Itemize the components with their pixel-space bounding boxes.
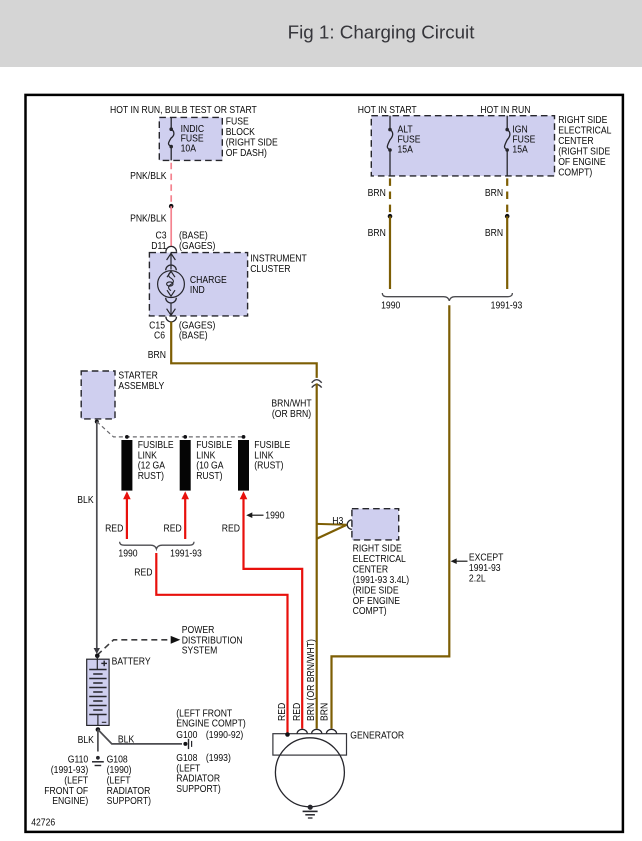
label PNK/BLK (upper)	[130, 171, 167, 182]
wire RED merged to generator	[156, 553, 287, 734]
label BLK (ground wire)	[78, 734, 95, 745]
svg-text:ELECTRICAL: ELECTRICAL	[353, 554, 406, 565]
svg-text:Fig 1: Charging Circuit: Fig 1: Charging Circuit	[288, 21, 476, 42]
svg-text:SYSTEM: SYSTEM	[182, 645, 217, 656]
svg-text:BLK: BLK	[78, 734, 95, 745]
instrument cluster box	[149, 253, 247, 316]
wire PNK/BLK dashed segment	[170, 163, 172, 204]
node RED at generator	[285, 732, 290, 737]
label RED rotated (1990 wire)	[292, 702, 303, 721]
svg-text:FRONT OF: FRONT OF	[44, 785, 88, 796]
svg-text:BRN: BRN	[148, 350, 166, 361]
fuse IGN FUSE 15A	[505, 116, 510, 176]
svg-text:(GAGES): (GAGES)	[179, 320, 215, 331]
svg-text:(LEFT: (LEFT	[107, 775, 131, 786]
connector cup generator RED(1990)	[297, 729, 307, 733]
label BLK (starter wire)	[77, 494, 94, 505]
svg-text:LINK: LINK	[254, 450, 274, 461]
label RED rotated (merged wire)	[277, 702, 288, 721]
charge indicator lamp symbol	[158, 253, 185, 315]
svg-text:HOT IN RUN: HOT IN RUN	[480, 105, 530, 116]
dashed arrow to power distribution system	[97, 636, 180, 655]
wire BRN merged down-left to generator	[332, 305, 450, 728]
label fusible link 2	[196, 439, 232, 481]
svg-text:(BASE): (BASE)	[179, 330, 208, 341]
svg-text:BATTERY: BATTERY	[112, 656, 151, 667]
svg-text:(12 GA: (12 GA	[138, 460, 166, 471]
svg-text:(LEFT FRONT: (LEFT FRONT	[176, 708, 232, 719]
label G108 (1993) (LEFT RADIATOR SUPPORT)	[176, 753, 231, 794]
svg-text:D11: D11	[151, 240, 166, 251]
svg-text:RADIATOR: RADIATOR	[176, 773, 220, 784]
label GENERATOR	[350, 730, 404, 741]
label RED (link1)	[105, 523, 124, 534]
label BATTERY	[112, 656, 151, 667]
brace merging 1990 / 1991-93 red wires	[120, 542, 194, 549]
label BRN/WHT (OR BRN)	[271, 398, 312, 419]
svg-text:OF ENGINE: OF ENGINE	[353, 595, 400, 606]
label RIGHT SIDE ELECTRICAL CENTER (1991-93 3.4L) (RIDE SIDE OF ENGINE COMPT)	[353, 543, 410, 616]
svg-text:RED: RED	[105, 523, 124, 534]
brace merging ALT / IGN brown wires	[382, 293, 512, 301]
svg-text:(LEFT: (LEFT	[64, 775, 88, 786]
label 1990 (left red)	[118, 548, 137, 559]
svg-text:BRN: BRN	[485, 188, 503, 199]
connector cup at instrument cluster top	[166, 246, 177, 251]
wire BLK battery to ground	[97, 730, 99, 752]
svg-text:1991-93: 1991-93	[469, 563, 501, 574]
node at fusible link 1 top	[125, 435, 129, 439]
svg-text:EXCEPT: EXCEPT	[469, 552, 504, 563]
svg-text:(RIGHT SIDE: (RIGHT SIDE	[558, 146, 610, 157]
right side electrical center box	[371, 116, 554, 176]
svg-text:(RIDE SIDE: (RIDE SIDE	[353, 585, 399, 596]
svg-text:GENERATOR: GENERATOR	[350, 730, 404, 741]
svg-text:G110: G110	[68, 754, 88, 765]
ground G110/G108	[92, 756, 104, 766]
wire BRN solid from IGN fuse	[506, 216, 508, 289]
svg-text:SUPPORT): SUPPORT)	[107, 796, 151, 807]
connector G100/G108 symbol	[183, 739, 191, 749]
label RIGHT SIDE ELECTRICAL CENTER (RIGHT SIDE OF ENGINE COMPT)	[558, 115, 611, 178]
value label INDIC FUSE 10A	[181, 123, 205, 153]
header band	[0, 0, 642, 67]
svg-text:1991-93: 1991-93	[491, 300, 523, 311]
svg-text:ELECTRICAL: ELECTRICAL	[558, 125, 611, 136]
svg-text:RIGHT SIDE: RIGHT SIDE	[353, 543, 402, 554]
pin C15 (GAGES)	[149, 320, 215, 331]
wire RED from fusible link 3 to generator	[240, 491, 303, 728]
svg-text:CHARGE: CHARGE	[190, 274, 227, 285]
label BRN (IGN upper)	[485, 188, 503, 199]
label 1991-93 (right red)	[170, 548, 202, 559]
battery BT1	[87, 656, 109, 726]
svg-text:1990: 1990	[118, 548, 137, 559]
label G108 (1990) (LEFT RADIATOR SUPPORT)	[107, 754, 151, 806]
svg-text:BLK: BLK	[77, 494, 94, 505]
label 1991-93 (IGN)	[491, 300, 523, 311]
wire BRN (OR BRN/WHT) down to generator	[316, 383, 318, 728]
figure number 42726	[31, 817, 55, 828]
svg-text:HOT IN RUN, BULB TEST OR START: HOT IN RUN, BULB TEST OR START	[110, 105, 257, 116]
label RED (link3)	[222, 523, 241, 534]
svg-text:RIGHT SIDE: RIGHT SIDE	[558, 115, 607, 126]
svg-text:(BASE): (BASE)	[179, 230, 208, 241]
svg-text:C3: C3	[155, 230, 166, 241]
svg-text:15A: 15A	[512, 144, 528, 155]
generator terminal block	[273, 734, 347, 755]
svg-text:BRN: BRN	[319, 703, 330, 721]
svg-text:POWER: POWER	[182, 625, 215, 636]
svg-text:(GAGES): (GAGES)	[179, 240, 215, 251]
arrow note 1990 on link3 wire	[246, 510, 284, 521]
pin D11 (GAGES)	[151, 240, 215, 251]
label POWER DISTRIBUTION SYSTEM	[182, 625, 243, 656]
svg-text:RADIATOR: RADIATOR	[107, 785, 151, 796]
connector cup at instrument cluster bottom	[166, 317, 177, 322]
svg-text:H3: H3	[332, 515, 343, 526]
svg-text:(RIGHT SIDE: (RIGHT SIDE	[226, 137, 278, 148]
node at battery positive	[95, 654, 100, 659]
svg-text:1990: 1990	[381, 300, 400, 311]
svg-text:BLOCK: BLOCK	[226, 126, 256, 137]
svg-text:CLUSTER: CLUSTER	[250, 263, 291, 274]
wire BLK starter to battery	[94, 422, 100, 654]
svg-text:FUSIBLE: FUSIBLE	[254, 439, 290, 450]
value label ALT FUSE 15A	[398, 124, 421, 154]
label fusible link 1	[138, 439, 174, 481]
svg-text:PNK/BLK: PNK/BLK	[130, 171, 167, 182]
label BRN (below cluster)	[148, 350, 166, 361]
svg-text:(1990-92): (1990-92)	[206, 729, 243, 740]
svg-text:(1993): (1993)	[206, 753, 231, 764]
label INSTRUMENT CLUSTER	[250, 253, 307, 274]
svg-text:(1990): (1990)	[107, 765, 132, 776]
svg-text:SUPPORT): SUPPORT)	[176, 783, 220, 794]
svg-text:FUSIBLE: FUSIBLE	[138, 439, 174, 450]
svg-text:BRN (OR BRN/WHT): BRN (OR BRN/WHT)	[306, 639, 317, 721]
svg-text:IND: IND	[190, 284, 205, 295]
node at fusible link 2 top	[183, 435, 187, 439]
label BRN (OR BRN/WHT) rotated	[306, 639, 317, 721]
arrow note EXCEPT 1991-93 2.2L	[451, 552, 504, 584]
generator body circle	[275, 738, 344, 807]
svg-text:RUST): RUST)	[138, 471, 164, 482]
svg-text:STARTER: STARTER	[118, 370, 158, 381]
ground at generator	[303, 805, 318, 818]
svg-text:HOT IN START: HOT IN START	[358, 105, 417, 116]
svg-text:INSTRUMENT: INSTRUMENT	[250, 253, 307, 264]
svg-text:15A: 15A	[398, 144, 414, 155]
svg-text:CENTER: CENTER	[353, 564, 389, 575]
fusible link FL2	[180, 440, 191, 491]
pin C3 (BASE)	[155, 230, 207, 241]
svg-text:OF DASH): OF DASH)	[226, 147, 267, 158]
value label IGN FUSE 15A	[512, 124, 535, 154]
svg-text:CENTER: CENTER	[558, 136, 594, 147]
right side electrical center (1991-93 3.4L) box	[352, 509, 399, 540]
node junction S201	[169, 204, 174, 209]
inline connector on BRN/WHT wire	[312, 380, 322, 388]
svg-text:(1991-93 3.4L): (1991-93 3.4L)	[353, 574, 410, 585]
node at battery negative	[96, 727, 101, 732]
svg-text:(RUST): (RUST)	[254, 460, 283, 471]
label RED (merged wire)	[134, 567, 153, 578]
svg-text:42726: 42726	[31, 817, 55, 828]
label BLK (to connector)	[118, 734, 135, 745]
connector cup H3	[347, 520, 352, 529]
label BRN rotated	[319, 703, 330, 721]
label BRN (ALT lower)	[368, 228, 386, 239]
fuse block (right side of dash)	[159, 117, 222, 160]
wire RED from fusible link 1	[123, 491, 131, 539]
wire BRN branch to H3	[317, 524, 347, 539]
label HOT IN RUN	[480, 105, 530, 116]
svg-text:BRN/WHT: BRN/WHT	[271, 398, 312, 409]
svg-text:OF ENGINE: OF ENGINE	[558, 157, 605, 168]
fuse INDIC FUSE 10A	[169, 117, 174, 160]
svg-text:ENGINE COMPT): ENGINE COMPT)	[176, 718, 245, 729]
svg-text:COMPT): COMPT)	[353, 606, 387, 617]
svg-text:BLK: BLK	[118, 734, 135, 745]
svg-text:2.2L: 2.2L	[469, 573, 486, 584]
wire BRN dashed from ALT fuse	[389, 178, 391, 212]
svg-text:FUSE: FUSE	[226, 116, 249, 127]
node at fusible link 3 top	[242, 435, 246, 439]
label G110 (1991-93) (LEFT FRONT OF ENGINE)	[44, 754, 88, 806]
wire BRN solid from ALT fuse	[389, 216, 391, 289]
wire BLK battery to G100 connector	[98, 730, 182, 744]
wire PNK/BLK solid segment	[170, 206, 172, 246]
svg-text:FUSIBLE: FUSIBLE	[196, 439, 232, 450]
svg-text:10A: 10A	[181, 143, 197, 154]
node on ALT BRN wire	[388, 214, 393, 219]
label HOT IN RUN, BULB TEST OR START	[110, 105, 257, 116]
svg-text:(OR BRN): (OR BRN)	[272, 408, 311, 419]
svg-text:RED: RED	[134, 567, 153, 578]
label H3	[332, 515, 343, 526]
svg-text:G108: G108	[107, 754, 128, 765]
fusible link FL1	[121, 440, 132, 491]
label FUSE BLOCK (RIGHT SIDE OF DASH)	[226, 116, 278, 158]
svg-text:PNK/BLK: PNK/BLK	[130, 213, 167, 224]
fusible link FL3	[238, 440, 249, 491]
fuse ALT FUSE 15A	[387, 116, 392, 176]
svg-text:G100: G100	[176, 729, 197, 740]
svg-text:(10 GA: (10 GA	[196, 460, 224, 471]
label HOT IN START	[358, 105, 417, 116]
svg-text:RED: RED	[222, 523, 241, 534]
svg-text:BRN: BRN	[368, 228, 386, 239]
svg-text:(LEFT: (LEFT	[176, 763, 200, 774]
label (LEFT FRONT ENGINE COMPT) G100 (1990-92)	[176, 708, 245, 740]
svg-text:LINK: LINK	[138, 450, 158, 461]
svg-text:(1991-93): (1991-93)	[51, 765, 88, 776]
svg-text:COMPT): COMPT)	[558, 167, 592, 178]
svg-text:C6: C6	[154, 330, 165, 341]
wire BRN from cluster, runs right then down	[171, 322, 317, 378]
svg-text:1991-93: 1991-93	[170, 548, 202, 559]
svg-text:BRN: BRN	[485, 228, 503, 239]
svg-text:RED: RED	[292, 702, 303, 721]
value label CHARGE IND	[190, 274, 227, 295]
pin C6 (BASE)	[154, 330, 208, 341]
dashed feed line from starter to fusible links	[97, 422, 244, 437]
label RED (link2)	[163, 523, 182, 534]
wire BRN dashed from IGN fuse	[506, 178, 508, 212]
svg-text:C15: C15	[149, 320, 165, 331]
svg-text:1990: 1990	[265, 510, 284, 521]
label BRN (IGN lower)	[485, 228, 503, 239]
svg-text:DISTRIBUTION: DISTRIBUTION	[182, 635, 243, 646]
connector cup generator BRN (OR BRN/WHT)	[312, 729, 322, 733]
node on IGN BRN wire	[505, 214, 510, 219]
label BRN (ALT upper)	[368, 188, 386, 199]
label fusible link 3	[254, 439, 290, 470]
svg-text:G108: G108	[176, 753, 197, 764]
svg-text:BRN: BRN	[368, 188, 386, 199]
connector cup generator BRN	[326, 729, 336, 733]
svg-text:LINK: LINK	[196, 450, 216, 461]
label STARTER ASSEMBLY	[118, 370, 164, 391]
svg-text:ASSEMBLY: ASSEMBLY	[118, 381, 164, 392]
wire RED from fusible link 2	[181, 491, 189, 539]
svg-text:ENGINE): ENGINE)	[52, 796, 88, 807]
svg-text:RED: RED	[163, 523, 182, 534]
svg-text:RED: RED	[277, 702, 288, 721]
label 1990 (ALT)	[381, 300, 400, 311]
node at starter assembly output	[95, 420, 99, 424]
label PNK/BLK (lower)	[130, 213, 167, 224]
starter assembly box	[81, 371, 115, 419]
svg-text:RUST): RUST)	[196, 471, 222, 482]
